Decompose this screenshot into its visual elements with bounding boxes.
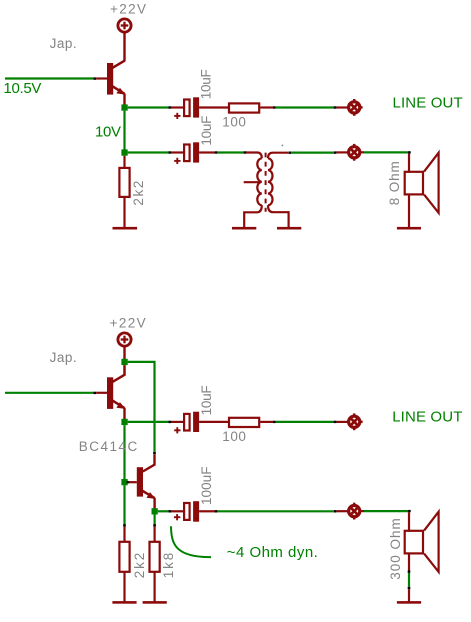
wire node D to node E bbox=[123, 425, 125, 479]
svg-text:+22V: +22V bbox=[110, 1, 146, 16]
supply +22V label (bottom) bbox=[110, 316, 146, 331]
svg-text:2k2: 2k2 bbox=[131, 181, 146, 206]
node E junction (Q3 base) bbox=[121, 479, 127, 485]
pin dot LS2 bottom bbox=[408, 571, 411, 573]
net label 10.5V bbox=[3, 80, 41, 97]
svg-text:1k8: 1k8 bbox=[161, 553, 176, 579]
wire VCC2 to node C bbox=[123, 347, 125, 359]
pin R5 top bbox=[154, 527, 156, 542]
wire node E to R4 bbox=[123, 485, 125, 525]
svg-text:10uF: 10uF bbox=[199, 116, 214, 146]
pin R3 right bbox=[260, 421, 273, 423]
pin LS1 top bbox=[408, 154, 410, 173]
svg-text:300 Ohm: 300 Ohm bbox=[388, 518, 403, 580]
pin R2 bottom bbox=[123, 198, 125, 227]
pin dot Q3 collector bbox=[153, 452, 156, 454]
pin dot C4 right bbox=[215, 510, 218, 512]
ground GND8 (LS2) bbox=[397, 601, 421, 604]
wire R3 to J3 bbox=[276, 421, 334, 423]
pin LS1 bottom bbox=[408, 195, 410, 227]
wire node B to C2 bbox=[128, 151, 169, 153]
transformer TR1 center tap bbox=[244, 181, 261, 183]
svg-text:10V: 10V bbox=[95, 124, 121, 141]
pin dot J1 bbox=[334, 106, 337, 108]
wire R1 to J1 bbox=[276, 106, 334, 108]
label BC414C bbox=[79, 439, 138, 454]
pin dot J2 bbox=[334, 151, 337, 153]
pin dot LS1 corner bbox=[408, 151, 411, 153]
transformer TR1 primary lead bbox=[246, 153, 262, 159]
svg-text:10uF: 10uF bbox=[199, 385, 214, 415]
svg-text:LINE OUT: LINE OUT bbox=[393, 95, 463, 112]
pin LS2 bottom bbox=[408, 554, 410, 571]
pin R1 right bbox=[260, 106, 273, 108]
transistor Q3 (BC414C) bbox=[137, 467, 156, 508]
ground GND4 (LS1) bbox=[397, 227, 421, 230]
speaker LS1 bbox=[405, 153, 439, 213]
net label 10V bbox=[95, 124, 121, 141]
svg-text:100: 100 bbox=[222, 429, 246, 444]
value label 100 (R1) bbox=[222, 115, 246, 130]
ground GND2 (TR1 primary) bbox=[232, 227, 256, 230]
transformer TR1 primary bottom lead bbox=[244, 205, 262, 227]
pin GND8 bbox=[408, 589, 410, 601]
resistor R1 100 bbox=[229, 103, 259, 112]
pin C4 right bbox=[199, 510, 215, 512]
resistor R5 1k8 bbox=[150, 542, 160, 572]
pad J3 (LINE OUT jack bottom) bbox=[349, 413, 363, 430]
pin Q1 base bbox=[96, 77, 107, 79]
pin dot C2 left bbox=[168, 151, 171, 153]
capacitor C3 10uF bbox=[174, 412, 199, 434]
transformer TR1 primary winding bbox=[257, 158, 262, 205]
pin J2 right bbox=[360, 151, 364, 153]
capacitor C1 10uF bbox=[174, 97, 199, 119]
value label 2k2 (R2) bbox=[131, 181, 146, 206]
value label 100uF (C4) bbox=[199, 467, 214, 506]
wire LS2 to ground bbox=[408, 573, 410, 587]
wire node F to R5 bbox=[154, 515, 156, 526]
node B junction (10V node) bbox=[121, 149, 127, 155]
ground GND3 (TR1 secondary) bbox=[277, 227, 301, 230]
pin C2 right bbox=[199, 151, 215, 153]
wire node F to C4 bbox=[158, 510, 169, 512]
wire TR1 to J2 bbox=[291, 152, 334, 154]
pin R4 top bbox=[123, 527, 125, 542]
pin dot R1 right bbox=[273, 106, 276, 108]
pin dot J3 bbox=[334, 421, 337, 423]
transistor Q1 (Jap.) bbox=[107, 60, 125, 105]
wire J2 to LS1 bbox=[364, 151, 408, 153]
pin J1 bbox=[336, 106, 348, 108]
pin dot R4 top bbox=[123, 524, 126, 526]
wire VCC1 to Q1 collector bbox=[123, 33, 125, 61]
pin dot TR1 left bbox=[244, 151, 247, 153]
pin C1 left bbox=[171, 106, 184, 108]
wire base input net 10.5V bbox=[5, 77, 94, 79]
pin dot Q3 base bbox=[127, 481, 130, 483]
wire C3 to R3 bbox=[199, 421, 228, 423]
transformer TR1 core bbox=[265, 153, 267, 212]
net label LINE OUT (top) bbox=[393, 95, 463, 112]
pin dot GND8 bbox=[408, 587, 411, 589]
pad J2 (speaker jack) bbox=[349, 144, 360, 161]
svg-text:Jap.: Jap. bbox=[50, 36, 77, 51]
pin dot C3 left bbox=[168, 421, 171, 423]
svg-text:100: 100 bbox=[222, 115, 246, 130]
ground GND1 (R2) bbox=[113, 227, 138, 230]
wire node A to C1 bbox=[128, 106, 169, 108]
value label 2k2 (R4) bbox=[132, 553, 147, 579]
svg-text:10uF: 10uF bbox=[199, 69, 214, 99]
transformer TR1 secondary winding bbox=[268, 158, 273, 205]
pin dot C2 right bbox=[215, 151, 218, 153]
ground GND6 (R4) bbox=[112, 601, 136, 604]
pin dot LS2 corner bbox=[408, 510, 411, 512]
net label ~4 Ohm dyn. bbox=[227, 544, 318, 561]
svg-text:10.5V: 10.5V bbox=[3, 80, 41, 97]
pin LS2 top bbox=[408, 512, 410, 532]
capacitor C4 100uF bbox=[174, 501, 199, 522]
pin R5 bottom bbox=[154, 572, 156, 601]
svg-text:LINE OUT: LINE OUT bbox=[392, 409, 462, 426]
wire node A to node B bbox=[123, 111, 125, 150]
pin Q2 base bbox=[96, 392, 107, 394]
net label LINE OUT (bottom) bbox=[392, 409, 462, 426]
pin dot C1 left bbox=[168, 106, 171, 108]
pin C3 left bbox=[171, 421, 184, 423]
wire C1 to R1 bbox=[199, 106, 228, 108]
wire C4 to J4 bbox=[217, 510, 333, 512]
pin C4 left bbox=[171, 510, 183, 512]
node D junction (Q2 emitter) bbox=[121, 419, 127, 425]
svg-text:2k2: 2k2 bbox=[132, 553, 147, 579]
wire J4 to LS2 bbox=[364, 510, 408, 512]
pin dot Q1 base bbox=[94, 77, 97, 79]
svg-text:~4 Ohm dyn.: ~4 Ohm dyn. bbox=[227, 544, 318, 561]
transformer TR1 secondary top lead bbox=[268, 153, 288, 159]
pin dot R3 right bbox=[273, 421, 276, 423]
capacitor C2 10uF bbox=[174, 142, 199, 164]
pin Q3 base bbox=[129, 481, 137, 483]
pin dot J4 bbox=[334, 510, 337, 512]
node A junction (Q1 emitter) bbox=[121, 104, 127, 110]
svg-text:100uF: 100uF bbox=[199, 467, 214, 506]
wire base input (bottom) bbox=[5, 392, 94, 394]
pin R2 top bbox=[123, 156, 125, 168]
value label 10uF (C3) bbox=[199, 385, 214, 415]
pin dot R5 top bbox=[153, 524, 156, 526]
value label 8 Ohm (LS1) bbox=[387, 161, 402, 205]
ground GND7 (R5) bbox=[143, 601, 167, 604]
supply symbol VCC1 bbox=[118, 19, 131, 32]
pin J4 left bbox=[336, 510, 348, 512]
resistor R3 100 bbox=[229, 418, 259, 427]
supply +22V label (top) bbox=[110, 1, 146, 16]
label Jap. (bottom) bbox=[50, 350, 77, 365]
pin Q2 collector bbox=[113, 365, 125, 382]
svg-text:8 Ohm: 8 Ohm bbox=[387, 161, 402, 205]
pad J1 (LINE OUT jack) bbox=[349, 99, 363, 116]
supply symbol VCC2 bbox=[118, 333, 131, 346]
pin C2 left bbox=[171, 151, 184, 153]
wire node D to C3 bbox=[128, 421, 169, 423]
transistor Q2 (Jap. bottom) bbox=[107, 377, 125, 419]
svg-text:Jap.: Jap. bbox=[50, 350, 77, 365]
pin J3 bbox=[336, 421, 348, 423]
pin dot Q2 base bbox=[94, 392, 97, 394]
pin dot C4 left bbox=[168, 510, 171, 512]
node C junction (supply node) bbox=[121, 359, 127, 365]
node F junction (Q3 emitter) bbox=[152, 508, 158, 514]
stray mark bbox=[282, 145, 284, 147]
wire C2 to TR1 bbox=[217, 151, 243, 153]
pin J4 right bbox=[360, 510, 364, 512]
label Jap. (top) bbox=[50, 36, 77, 51]
pin R4 bottom bbox=[123, 572, 125, 601]
pin dot TR1 right bbox=[289, 152, 292, 154]
annotation curve (~4 Ohm pointer) bbox=[171, 526, 211, 557]
pin Q3 collector bbox=[143, 454, 155, 471]
transformer TR1 secondary bottom lead bbox=[268, 205, 289, 227]
value label 10uF (C2) bbox=[199, 116, 214, 146]
value label 1k8 (R5) bbox=[161, 553, 176, 579]
value label 100 (R3) bbox=[222, 429, 246, 444]
value label 300 Ohm (LS2) bbox=[388, 518, 403, 580]
pin J2 left bbox=[336, 151, 348, 153]
speaker LS2 bbox=[405, 512, 439, 572]
resistor R2 2k2 bbox=[119, 168, 129, 197]
wire node C to Q3 collector feed bbox=[128, 362, 155, 452]
value label 10uF (C1) bbox=[199, 69, 214, 99]
resistor R4 2k2 bbox=[119, 542, 129, 572]
svg-text:+22V: +22V bbox=[110, 316, 146, 331]
pad J4 (speaker jack bottom) bbox=[349, 503, 360, 520]
